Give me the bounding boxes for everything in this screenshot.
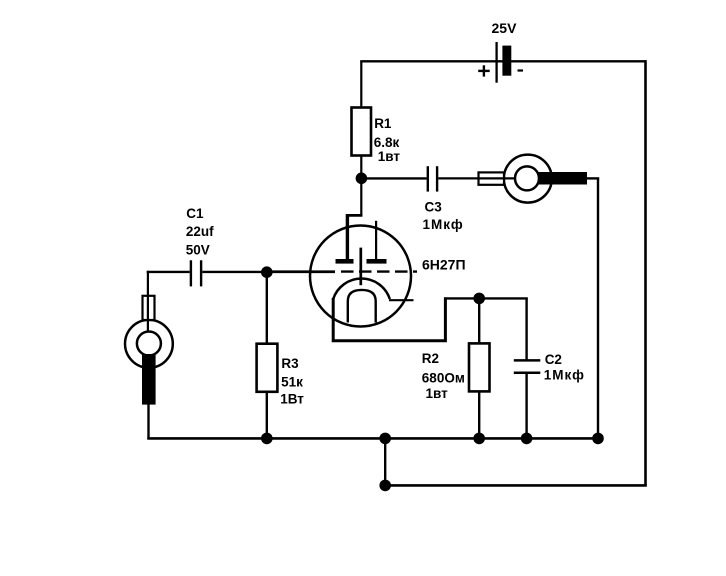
svg-text:R1: R1 xyxy=(374,116,392,131)
svg-text:C1: C1 xyxy=(186,206,204,221)
svg-text:1Мкф: 1Мкф xyxy=(423,217,464,232)
svg-text:51к: 51к xyxy=(281,375,303,390)
svg-text:1вт: 1вт xyxy=(426,386,449,401)
svg-text:R2: R2 xyxy=(422,351,439,366)
svg-text:C2: C2 xyxy=(545,352,562,367)
svg-text:680Ом: 680Ом xyxy=(422,371,465,386)
svg-text:R3: R3 xyxy=(281,356,299,371)
svg-text:C3: C3 xyxy=(425,199,443,214)
svg-text:25V: 25V xyxy=(492,20,518,36)
svg-text:1Мкф: 1Мкф xyxy=(544,367,585,382)
svg-text:22uf: 22uf xyxy=(186,224,214,239)
svg-text:6.8к: 6.8к xyxy=(374,135,400,150)
svg-text:50V: 50V xyxy=(186,242,210,257)
svg-text:6Н27П: 6Н27П xyxy=(422,256,466,272)
svg-text:1вт: 1вт xyxy=(378,149,401,164)
svg-text:1Вт: 1Вт xyxy=(280,392,304,407)
